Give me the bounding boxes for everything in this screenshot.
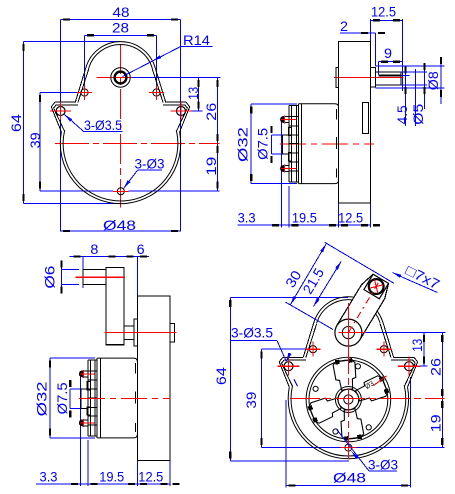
svg-text:Ø48: Ø48 [333, 470, 366, 486]
svg-text:19.5: 19.5 [292, 210, 317, 226]
svg-text:3-Ø3.5: 3-Ø3.5 [84, 117, 122, 133]
svg-text:39: 39 [27, 132, 43, 148]
svg-text:19.5: 19.5 [99, 469, 124, 485]
svg-text:4.5: 4.5 [394, 105, 410, 124]
svg-text:13: 13 [409, 339, 425, 352]
svg-text:26: 26 [427, 358, 443, 376]
svg-text:12.5: 12.5 [138, 469, 163, 485]
svg-text:3.3: 3.3 [238, 210, 256, 226]
svg-text:Ø32: Ø32 [33, 381, 49, 416]
svg-text:6: 6 [137, 241, 145, 257]
svg-text:3-Ø3: 3-Ø3 [135, 156, 165, 172]
svg-text:48: 48 [113, 4, 130, 20]
svg-text:Ø32: Ø32 [235, 127, 251, 162]
svg-text:39: 39 [243, 391, 259, 408]
svg-text:12.5: 12.5 [338, 210, 363, 226]
svg-text:R14: R14 [183, 32, 210, 48]
svg-text:Ø7.5: Ø7.5 [54, 382, 70, 414]
svg-text:28: 28 [112, 20, 129, 36]
svg-text:Ø8: Ø8 [425, 71, 441, 90]
svg-text:3-Ø3: 3-Ø3 [368, 457, 398, 473]
svg-text:26: 26 [203, 102, 219, 120]
svg-text:Ø48: Ø48 [103, 217, 136, 233]
svg-text:64: 64 [213, 367, 229, 385]
svg-text:9: 9 [384, 45, 392, 61]
svg-text:64: 64 [8, 114, 24, 132]
svg-text:19: 19 [427, 414, 443, 432]
svg-text:3-Ø3.5: 3-Ø3.5 [231, 325, 273, 341]
svg-text:13: 13 [185, 87, 201, 100]
svg-text:Ø6: Ø6 [42, 265, 58, 288]
svg-text:3.3: 3.3 [40, 469, 58, 485]
svg-text:12.5: 12.5 [371, 4, 396, 20]
svg-text:8: 8 [90, 241, 98, 257]
svg-text:Ø7.5: Ø7.5 [255, 128, 271, 160]
svg-text:2: 2 [340, 18, 348, 34]
svg-text:19: 19 [203, 156, 219, 175]
svg-text:Ø5: Ø5 [410, 103, 426, 124]
